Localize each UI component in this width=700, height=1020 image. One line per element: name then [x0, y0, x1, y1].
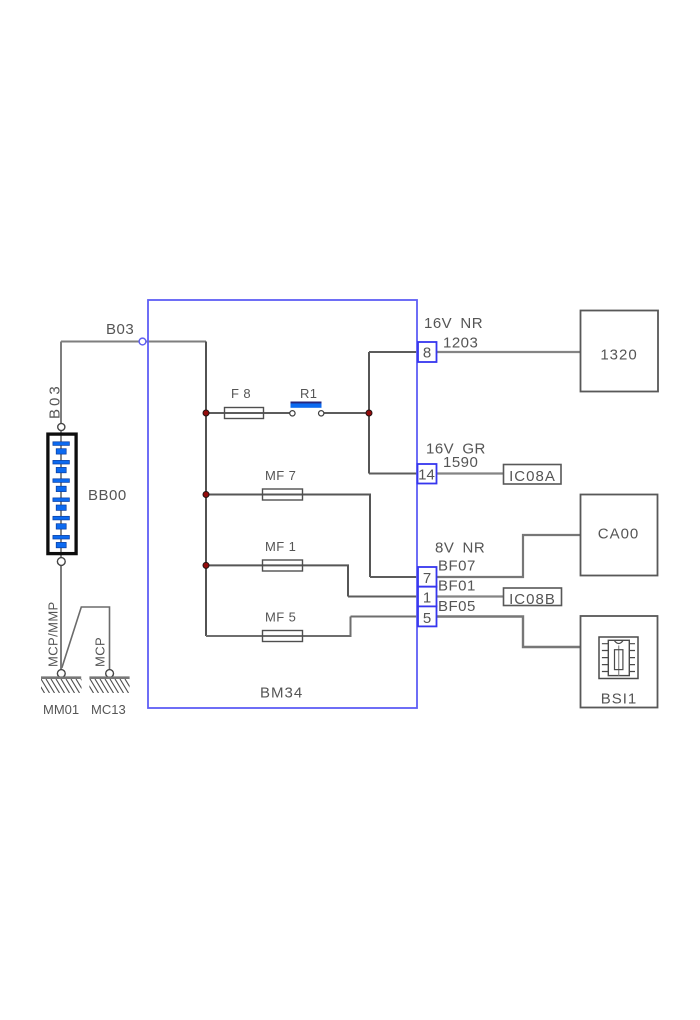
wire pin 14 to IC08A	[437, 472, 503, 474]
svg-text:MCP: MCP	[93, 637, 108, 667]
svg-text:MM01: MM01	[43, 702, 79, 717]
pin 14	[418, 464, 437, 484]
fuse MF1	[263, 539, 303, 571]
box BSI1	[581, 616, 658, 708]
svg-text:1: 1	[423, 590, 431, 607]
svg-text:R1: R1	[300, 386, 317, 401]
node B03	[106, 321, 146, 345]
wire MF1 row	[206, 565, 348, 596]
IC symbol inside BSI1	[599, 637, 638, 679]
wire pin 8 to 1320	[437, 351, 580, 353]
svg-text:B03: B03	[106, 321, 134, 338]
wire B03 horizontal to bus	[61, 341, 206, 343]
label box IC08A	[504, 465, 562, 486]
wire MF5 row	[206, 617, 351, 637]
svg-text:MC13: MC13	[91, 702, 126, 717]
wire B03 down to battery	[60, 342, 62, 425]
battery bottom terminal	[57, 558, 65, 566]
svg-text:16V NR: 16V NR	[424, 315, 483, 332]
wire F8 row left	[206, 412, 290, 414]
svg-text:IC08B: IC08B	[509, 591, 556, 608]
svg-text:BF05: BF05	[438, 598, 476, 615]
wire to pin 8	[369, 351, 417, 353]
svg-text:1320: 1320	[600, 347, 637, 364]
svg-text:14: 14	[418, 467, 435, 484]
svg-text:8V NR: 8V NR	[435, 540, 485, 557]
junction at MF1	[203, 562, 209, 568]
battery top terminal	[58, 423, 65, 430]
wire battery to ground MM01	[60, 561, 62, 673]
svg-text:MF 5: MF 5	[265, 610, 296, 625]
svg-text:8: 8	[423, 345, 431, 362]
svg-text:BF07: BF07	[438, 558, 476, 575]
label box IC08B	[504, 588, 562, 608]
junction at R1 right	[366, 410, 372, 416]
wire to pin 5	[351, 616, 418, 618]
ground MM01	[31, 670, 100, 717]
wire pin 5 to BSI1	[437, 617, 580, 648]
svg-text:MF 1: MF 1	[265, 539, 296, 554]
wire right bus pin8 to pin14	[368, 352, 370, 474]
wire F8 row right	[324, 412, 369, 414]
fuse F8	[225, 386, 264, 419]
wire MF7 row	[206, 495, 370, 578]
box 1320	[581, 311, 659, 392]
junction at F8	[203, 410, 209, 416]
svg-text:BF01: BF01	[438, 578, 476, 595]
svg-text:MCP/MMP: MCP/MMP	[46, 601, 61, 667]
svg-text:1590: 1590	[443, 454, 478, 471]
battery BB00	[48, 434, 76, 553]
ground MC13	[80, 670, 149, 717]
svg-text:IC08A: IC08A	[509, 468, 556, 485]
wire pin 1 to IC08B	[437, 595, 503, 597]
fuse MF7	[263, 468, 303, 500]
svg-text:BM34: BM34	[260, 685, 303, 702]
pin 1	[418, 587, 437, 607]
svg-text:5: 5	[423, 610, 431, 627]
wire to pin 7	[370, 576, 417, 578]
relay contact R1	[290, 386, 324, 416]
ECU box BM34	[148, 300, 417, 708]
pin 7	[418, 567, 437, 587]
wire pin 7 to CA00	[437, 535, 580, 577]
wire left bus inside BM34	[205, 342, 207, 637]
svg-text:1203: 1203	[443, 335, 478, 352]
wire battery internal	[60, 427, 62, 561]
pin 8	[418, 342, 437, 362]
fuse MF5	[263, 610, 303, 642]
wire MC13 branch	[62, 607, 110, 670]
wire to pin 14	[369, 473, 417, 475]
pin 5	[418, 606, 437, 626]
wire to pin 1	[348, 596, 417, 598]
box CA00	[581, 495, 658, 576]
junction at MF7	[203, 492, 209, 498]
svg-text:BB00: BB00	[88, 487, 127, 504]
svg-text:CA00: CA00	[598, 526, 640, 543]
svg-text:F 8: F 8	[231, 386, 251, 401]
svg-text:MF 7: MF 7	[265, 468, 296, 483]
svg-text:7: 7	[423, 570, 431, 587]
svg-text:B03: B03	[47, 383, 64, 419]
svg-text:BSI1: BSI1	[601, 691, 638, 708]
